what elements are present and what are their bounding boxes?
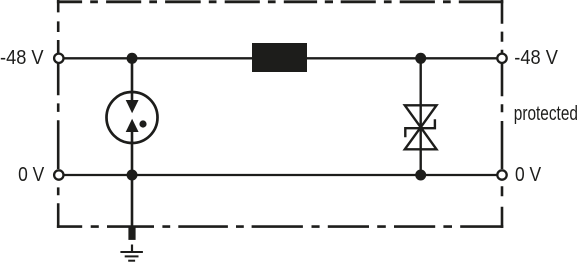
- dashed boundary frame: bottom edge: [57, 225, 503, 228]
- junction dot: bottom-left: [127, 170, 138, 181]
- junction dot: top-right: [415, 53, 426, 64]
- wire: top line (-48 V rail): [59, 57, 502, 59]
- GDT arrow: down triangle: [126, 100, 139, 113]
- dashed boundary frame: top edge: [57, 0, 503, 3]
- GDT arrow: up triangle: [126, 119, 139, 132]
- junction dot: top-left: [127, 53, 138, 64]
- terminal: top-right: [497, 54, 506, 63]
- svg-text:-48 V: -48 V: [514, 47, 558, 69]
- svg-text:0 V: 0 V: [18, 163, 45, 185]
- series impedance block (decoupling element): [252, 43, 307, 72]
- terminal tick at frame crossing: [128, 226, 135, 240]
- GDT gas-filled dot: [139, 120, 146, 127]
- gas discharge tube F1: circle body: [107, 92, 158, 143]
- wire: GDT branch upper segment: [131, 58, 134, 101]
- svg-text:0 V: 0 V: [515, 163, 542, 185]
- wire: TVS branch: [420, 58, 422, 175]
- terminal: bottom-right: [497, 170, 506, 179]
- ground: bar 2: [125, 255, 139, 257]
- svg-text:protected: protected: [514, 102, 578, 124]
- TVS diode: bottom triangle: [405, 127, 437, 149]
- terminal: top-left: [54, 54, 63, 63]
- dashed boundary frame: left edge: [57, 0, 60, 228]
- ground: bar 3: [128, 260, 135, 262]
- TVS diode: zener bar with hooks: [405, 119, 435, 137]
- dashed boundary frame: right edge: [501, 0, 504, 228]
- ground: stub: [131, 245, 133, 253]
- wire: ground lead from 0 V rail to frame: [131, 175, 134, 226]
- svg-text:-48 V: -48 V: [0, 47, 44, 69]
- junction dot: bottom-right: [415, 170, 426, 181]
- terminal: bottom-left: [54, 170, 63, 179]
- wire: GDT branch lower segment: [131, 132, 134, 176]
- ground: bar 1: [120, 251, 142, 253]
- wire: bottom line (0 V rail): [59, 174, 502, 176]
- TVS diode: top triangle: [405, 105, 437, 127]
